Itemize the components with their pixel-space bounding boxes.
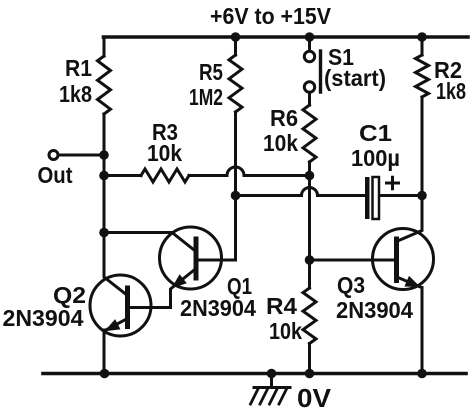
svg-text:+6V to +15V: +6V to +15V [210,3,332,29]
svg-text:Q3: Q3 [337,272,365,298]
svg-text:100µ: 100µ [351,145,400,171]
svg-text:R6: R6 [270,105,298,131]
svg-text:2N3904: 2N3904 [180,295,256,321]
svg-text:R5: R5 [199,59,223,85]
svg-text:1k8: 1k8 [59,81,92,107]
svg-text:2N3904: 2N3904 [336,297,413,323]
svg-text:R4: R4 [266,293,297,319]
svg-text:10k: 10k [147,140,182,166]
svg-text:(start): (start) [324,65,386,91]
svg-text:2N3904: 2N3904 [3,305,84,331]
svg-text:10k: 10k [263,130,298,156]
svg-text:1k8: 1k8 [436,78,466,104]
svg-text:Out: Out [38,162,73,188]
svg-text:R1: R1 [65,55,92,81]
svg-text:C1: C1 [359,120,392,146]
svg-text:10k: 10k [269,318,302,344]
svg-text:0V: 0V [297,383,332,412]
svg-text:1M2: 1M2 [189,84,223,110]
